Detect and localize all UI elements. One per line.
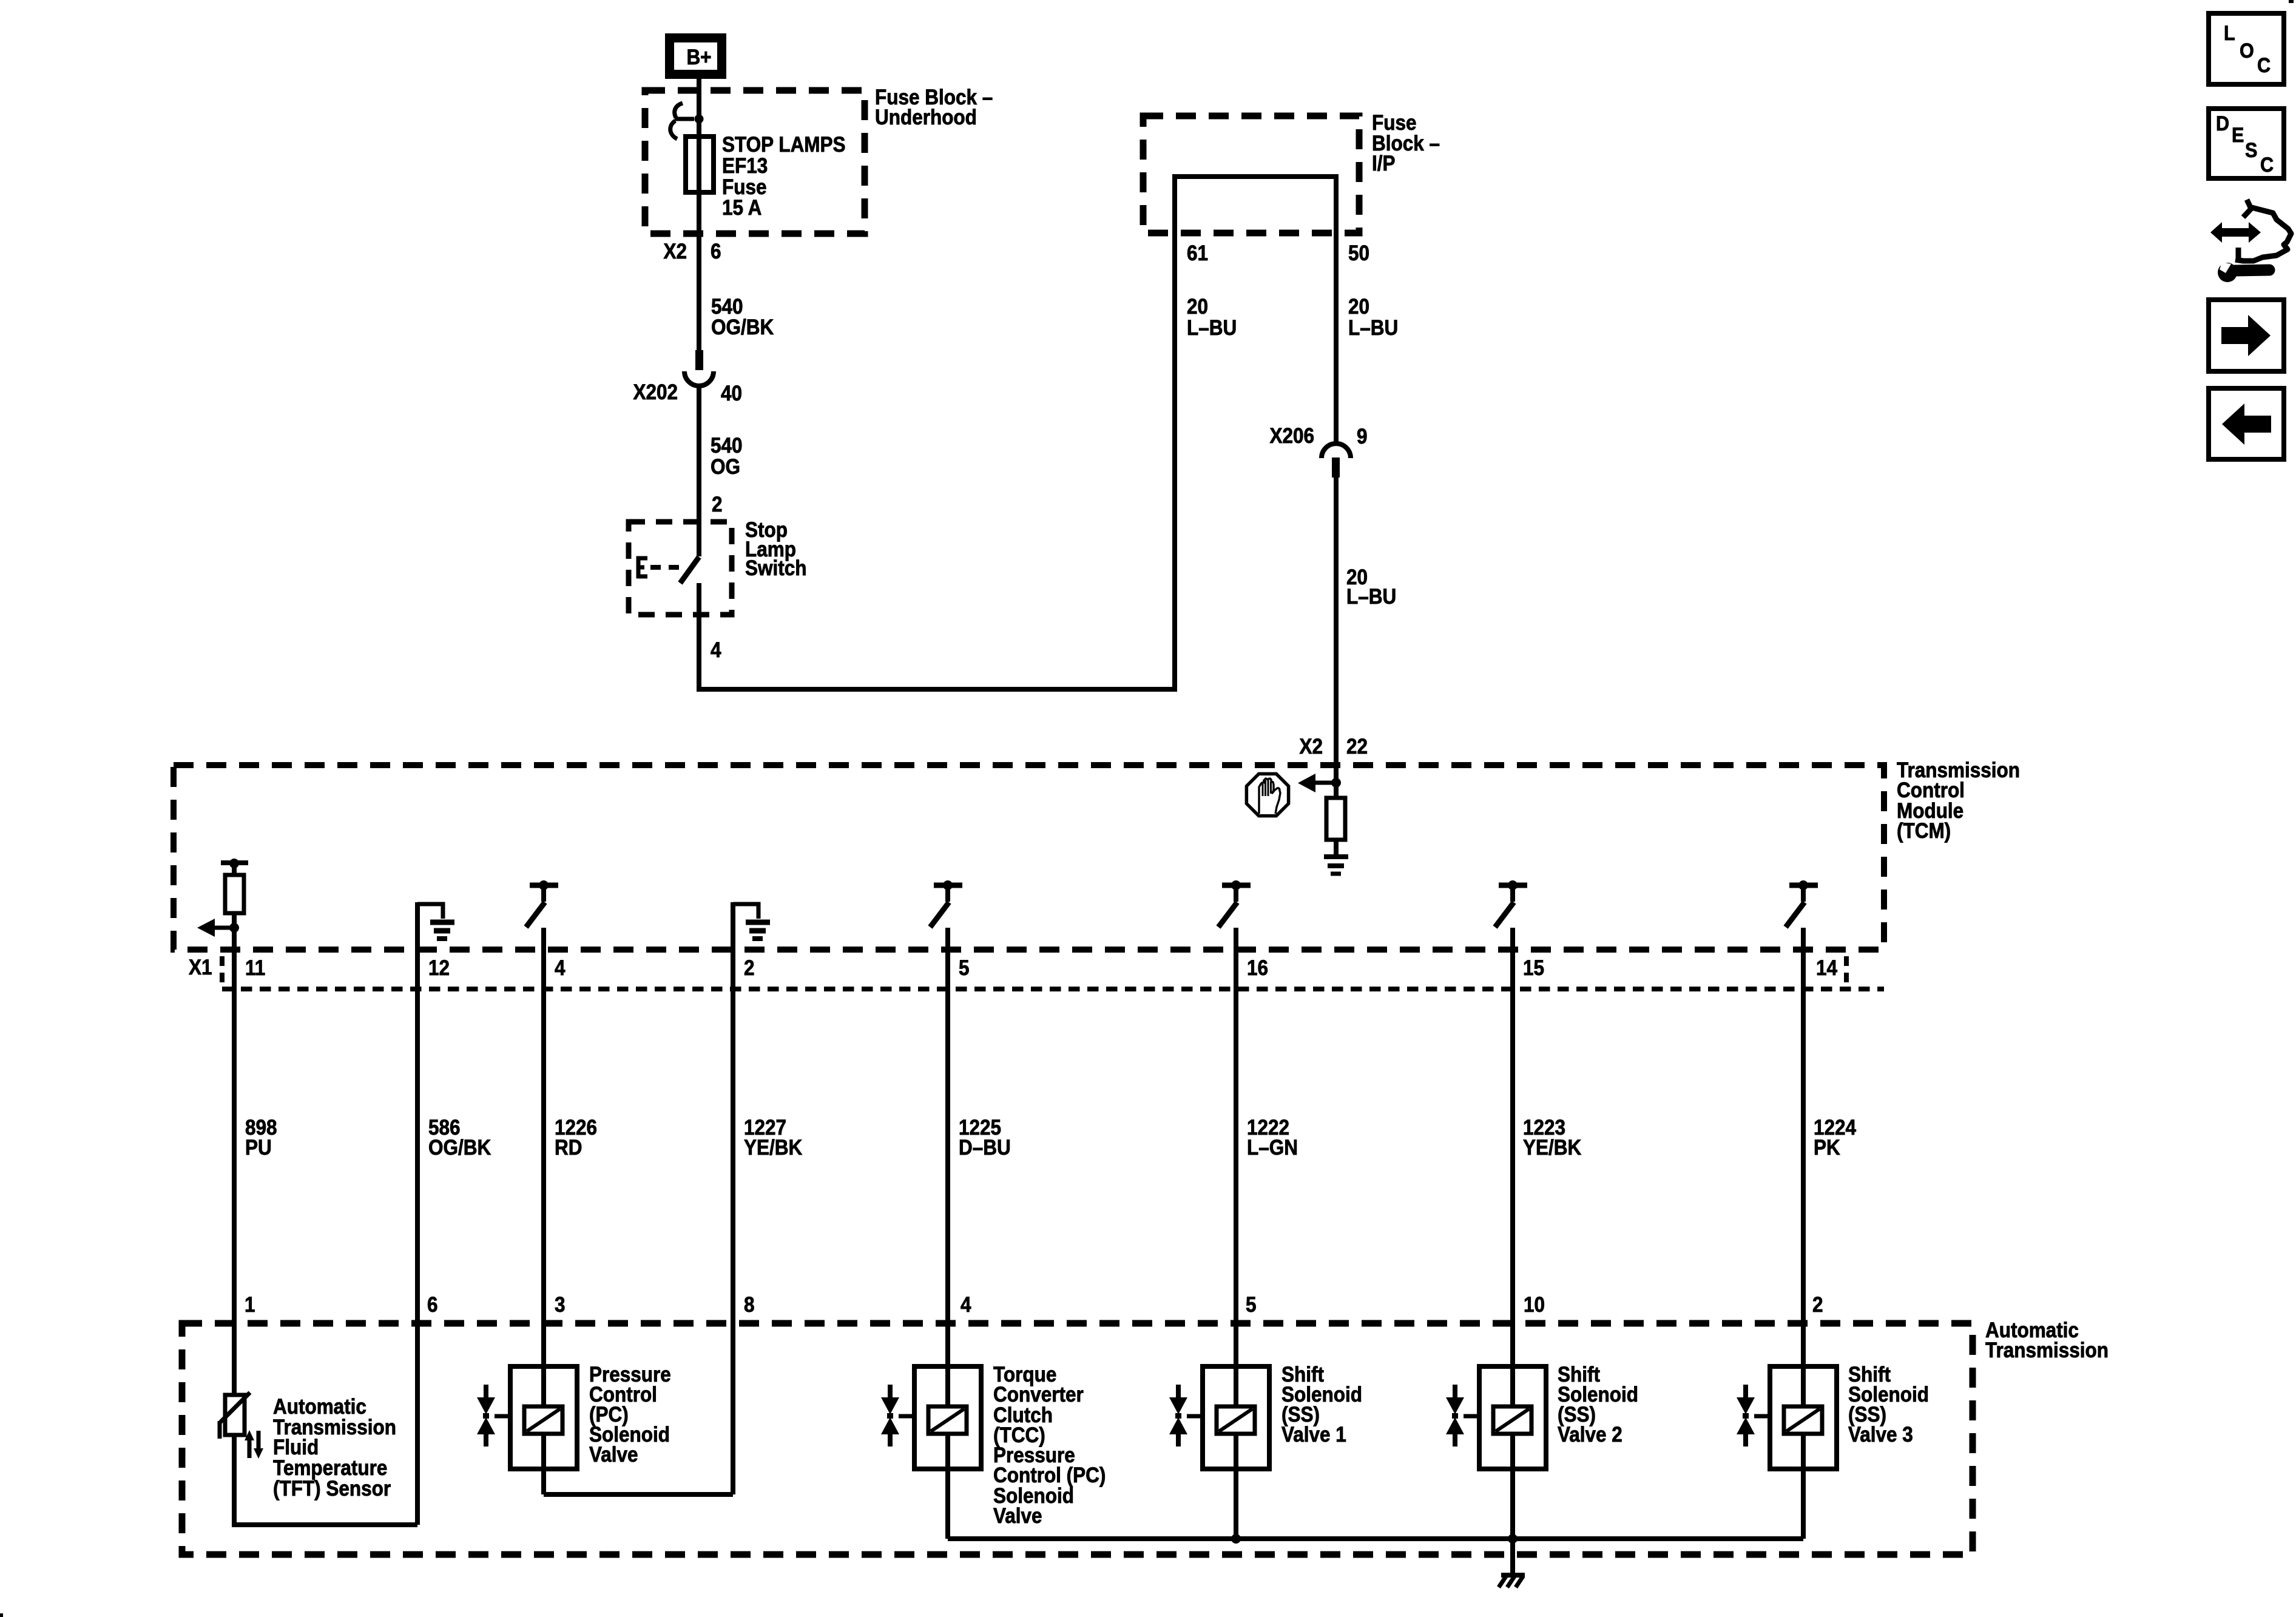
svg-text:D: D xyxy=(2216,112,2229,135)
svg-text:5: 5 xyxy=(1246,1294,1257,1317)
connector X1 dotted line xyxy=(222,987,1884,991)
wire PC solenoid to pin 8 wire xyxy=(541,1434,546,1494)
svg-text:YE/BK: YE/BK xyxy=(1523,1136,1581,1160)
svg-text:Transmission: Transmission xyxy=(1985,1339,2109,1363)
junction dot at X2/22 xyxy=(1331,778,1341,788)
svg-text:L–BU: L–BU xyxy=(1348,317,1398,340)
back arrow icon xyxy=(2209,388,2284,459)
svg-text:5: 5 xyxy=(959,957,970,981)
svg-text:I/P: I/P xyxy=(1372,152,1396,176)
svg-text:PU: PU xyxy=(245,1136,272,1160)
svg-text:540: 540 xyxy=(711,434,743,458)
svg-text:YE/BK: YE/BK xyxy=(744,1136,802,1160)
stop-hand warning icon (octagon with hand) xyxy=(1246,774,1288,815)
forward arrow icon xyxy=(2209,300,2284,371)
svg-text:Underhood: Underhood xyxy=(875,106,977,130)
svg-text:O: O xyxy=(2240,39,2254,62)
TCM driver switch pin 15 xyxy=(1499,883,1527,888)
svg-text:C: C xyxy=(2257,54,2271,77)
wire SS3 to ground bus xyxy=(1801,1434,1806,1539)
svg-text:E: E xyxy=(2232,124,2244,147)
fuse EF13 15A body xyxy=(686,137,714,192)
wire TFT sensor to pin 6 wire xyxy=(234,1436,417,1525)
pull-down resistor inside TCM xyxy=(1334,783,1339,798)
svg-text:Valve 1: Valve 1 xyxy=(1281,1423,1346,1447)
svg-text:4: 4 xyxy=(961,1294,971,1317)
svg-text:X2: X2 xyxy=(1299,735,1323,759)
junction dot at fuse clip xyxy=(695,115,704,124)
LOC navigation icon xyxy=(2209,13,2284,84)
svg-text:50: 50 xyxy=(1348,242,1369,266)
DESC navigation icon xyxy=(2209,109,2284,178)
svg-text:3: 3 xyxy=(555,1294,566,1317)
junction dot SS2 xyxy=(1508,1534,1518,1544)
svg-text:8: 8 xyxy=(744,1294,755,1317)
TFT sensor input inside TCM (pull-up and sense arrow) xyxy=(221,860,248,865)
svg-text:1: 1 xyxy=(245,1294,255,1317)
stop lamp switch blade xyxy=(680,557,699,583)
Transmission Control Module dashed box xyxy=(174,765,1884,950)
svg-text:2: 2 xyxy=(1812,1294,1823,1317)
connector X202 male stub xyxy=(695,350,703,370)
wire through fuse to X2 pin 6 xyxy=(697,139,701,350)
svg-text:OG/BK: OG/BK xyxy=(428,1136,491,1160)
wire 540 OG from X202 to stop lamp switch xyxy=(697,385,701,556)
svg-text:11: 11 xyxy=(245,957,265,981)
page corner mark bottom left xyxy=(0,1613,3,1617)
svg-text:2: 2 xyxy=(712,493,723,517)
svg-text:D–BU: D–BU xyxy=(959,1136,1011,1160)
TCM internal ground at pin 12 xyxy=(417,904,443,919)
wire TCC solenoid to common ground bus xyxy=(945,1434,950,1539)
svg-text:C: C xyxy=(2260,154,2274,177)
svg-text:16: 16 xyxy=(1247,957,1268,981)
wire 20 L-BU from X206 to TCM X2 pin 22 xyxy=(1334,477,1339,783)
svg-text:OG: OG xyxy=(711,456,740,479)
svg-text:Valve: Valve xyxy=(589,1443,638,1467)
svg-text:S: S xyxy=(2245,139,2257,162)
stop lamp switch dashed box xyxy=(629,522,732,615)
wire 1225 D-BU xyxy=(945,928,950,1406)
wire 1226 RD xyxy=(541,928,546,1406)
svg-text:OG/BK: OG/BK xyxy=(711,316,774,340)
svg-text:PK: PK xyxy=(1814,1136,1840,1160)
svg-text:EF13: EF13 xyxy=(722,155,768,178)
svg-text:4: 4 xyxy=(555,957,566,981)
TFT thermistor sensor xyxy=(225,1395,245,1435)
wire 1223 YE/BK xyxy=(1510,928,1515,1406)
svg-text:Valve 2: Valve 2 xyxy=(1558,1423,1622,1447)
connector X1 separator right xyxy=(1844,956,1849,984)
junction dot above pin 11 xyxy=(229,923,239,933)
svg-text:(TCM): (TCM) xyxy=(1897,820,1951,843)
svg-text:(TFT) Sensor: (TFT) Sensor xyxy=(273,1477,391,1501)
wire from stop lamp switch pin 4 to fuse block I/P pin 61 and on to pin 50 xyxy=(699,177,1336,689)
svg-text:20: 20 xyxy=(1187,295,1208,319)
ground symbol under resistor xyxy=(1324,854,1348,859)
svg-text:Switch: Switch xyxy=(745,557,806,581)
wire 1222 L-GN xyxy=(1234,928,1238,1406)
power feed B+ symbol xyxy=(665,33,726,79)
svg-text:B+: B+ xyxy=(686,46,711,70)
wire 1224 PK xyxy=(1801,928,1806,1406)
svg-text:40: 40 xyxy=(721,382,742,406)
Shift Solenoid SS valve 1 xyxy=(1203,1366,1269,1469)
svg-text:X1: X1 xyxy=(189,956,212,980)
svg-text:6: 6 xyxy=(711,240,721,264)
connector X202 female half xyxy=(684,371,714,386)
page corner mark top right xyxy=(2289,0,2294,3)
svg-text:2: 2 xyxy=(744,957,755,981)
svg-text:X206: X206 xyxy=(1269,425,1314,448)
svg-text:61: 61 xyxy=(1187,242,1208,266)
stop lamp switch actuator dashed link xyxy=(650,565,682,570)
svg-text:L–BU: L–BU xyxy=(1346,586,1396,609)
svg-text:4: 4 xyxy=(711,639,721,663)
svg-text:12: 12 xyxy=(428,957,450,981)
service/diagnostics icon xyxy=(2210,222,2261,243)
svg-text:6: 6 xyxy=(427,1294,438,1317)
TCM driver switch pin 5 xyxy=(934,883,962,888)
TFT sensor variation arrows xyxy=(248,1439,252,1458)
junction dot SS1 xyxy=(1231,1534,1241,1544)
stop lamp switch actuator E bracket xyxy=(636,556,641,578)
connector X206 female half xyxy=(1322,444,1351,458)
svg-text:10: 10 xyxy=(1524,1294,1545,1317)
wire SS2 through ground bus to chassis ground xyxy=(1510,1434,1515,1575)
chassis ground symbol xyxy=(1501,1573,1525,1578)
Fuse Block - Underhood dashed box xyxy=(645,90,865,234)
svg-text:20: 20 xyxy=(1348,295,1369,319)
svg-text:STOP LAMPS: STOP LAMPS xyxy=(722,133,846,157)
wire SS1 to ground bus xyxy=(1234,1434,1238,1539)
svg-text:15 A: 15 A xyxy=(722,197,761,220)
Shift Solenoid SS valve 2 xyxy=(1479,1366,1546,1469)
fuse clip holder xyxy=(675,103,683,118)
svg-text:Valve 3: Valve 3 xyxy=(1848,1423,1913,1447)
wire 1227 YE/BK xyxy=(731,902,735,1494)
svg-text:9: 9 xyxy=(1357,425,1368,449)
Shift Solenoid SS valve 3 xyxy=(1770,1366,1837,1469)
connector X1 separator left xyxy=(220,956,225,984)
svg-text:14: 14 xyxy=(1816,957,1837,981)
svg-text:L–BU: L–BU xyxy=(1187,317,1237,340)
svg-text:15: 15 xyxy=(1523,957,1544,981)
Automatic Transmission dashed box xyxy=(182,1323,1973,1555)
Torque Converter Clutch PC solenoid valve xyxy=(914,1366,981,1469)
connector X206 male stub xyxy=(1332,457,1340,478)
TCM internal ground at pin 2 xyxy=(733,904,758,919)
svg-text:22: 22 xyxy=(1346,735,1368,759)
Pressure Control PC solenoid valve xyxy=(510,1366,577,1469)
svg-text:RD: RD xyxy=(555,1136,582,1160)
wire 586 OG/BK xyxy=(415,902,420,1525)
svg-text:L: L xyxy=(2224,22,2235,45)
TCM driver switch pin 14 xyxy=(1789,883,1818,888)
Fuse Block - I/P dashed box xyxy=(1143,116,1359,233)
arrow into TCM at X2/22 xyxy=(1313,781,1336,785)
TCM driver switch pin 16 xyxy=(1222,883,1251,888)
svg-text:Valve: Valve xyxy=(993,1505,1042,1528)
svg-text:L–GN: L–GN xyxy=(1247,1136,1298,1160)
svg-text:X2: X2 xyxy=(663,240,687,264)
wire 898 PU xyxy=(232,928,237,1395)
sense arrow at pin 11 xyxy=(214,926,234,930)
TCM driver switch pin 4 xyxy=(530,883,558,888)
svg-text:X202: X202 xyxy=(633,381,678,405)
wire from B+ to fuse block xyxy=(697,79,701,137)
